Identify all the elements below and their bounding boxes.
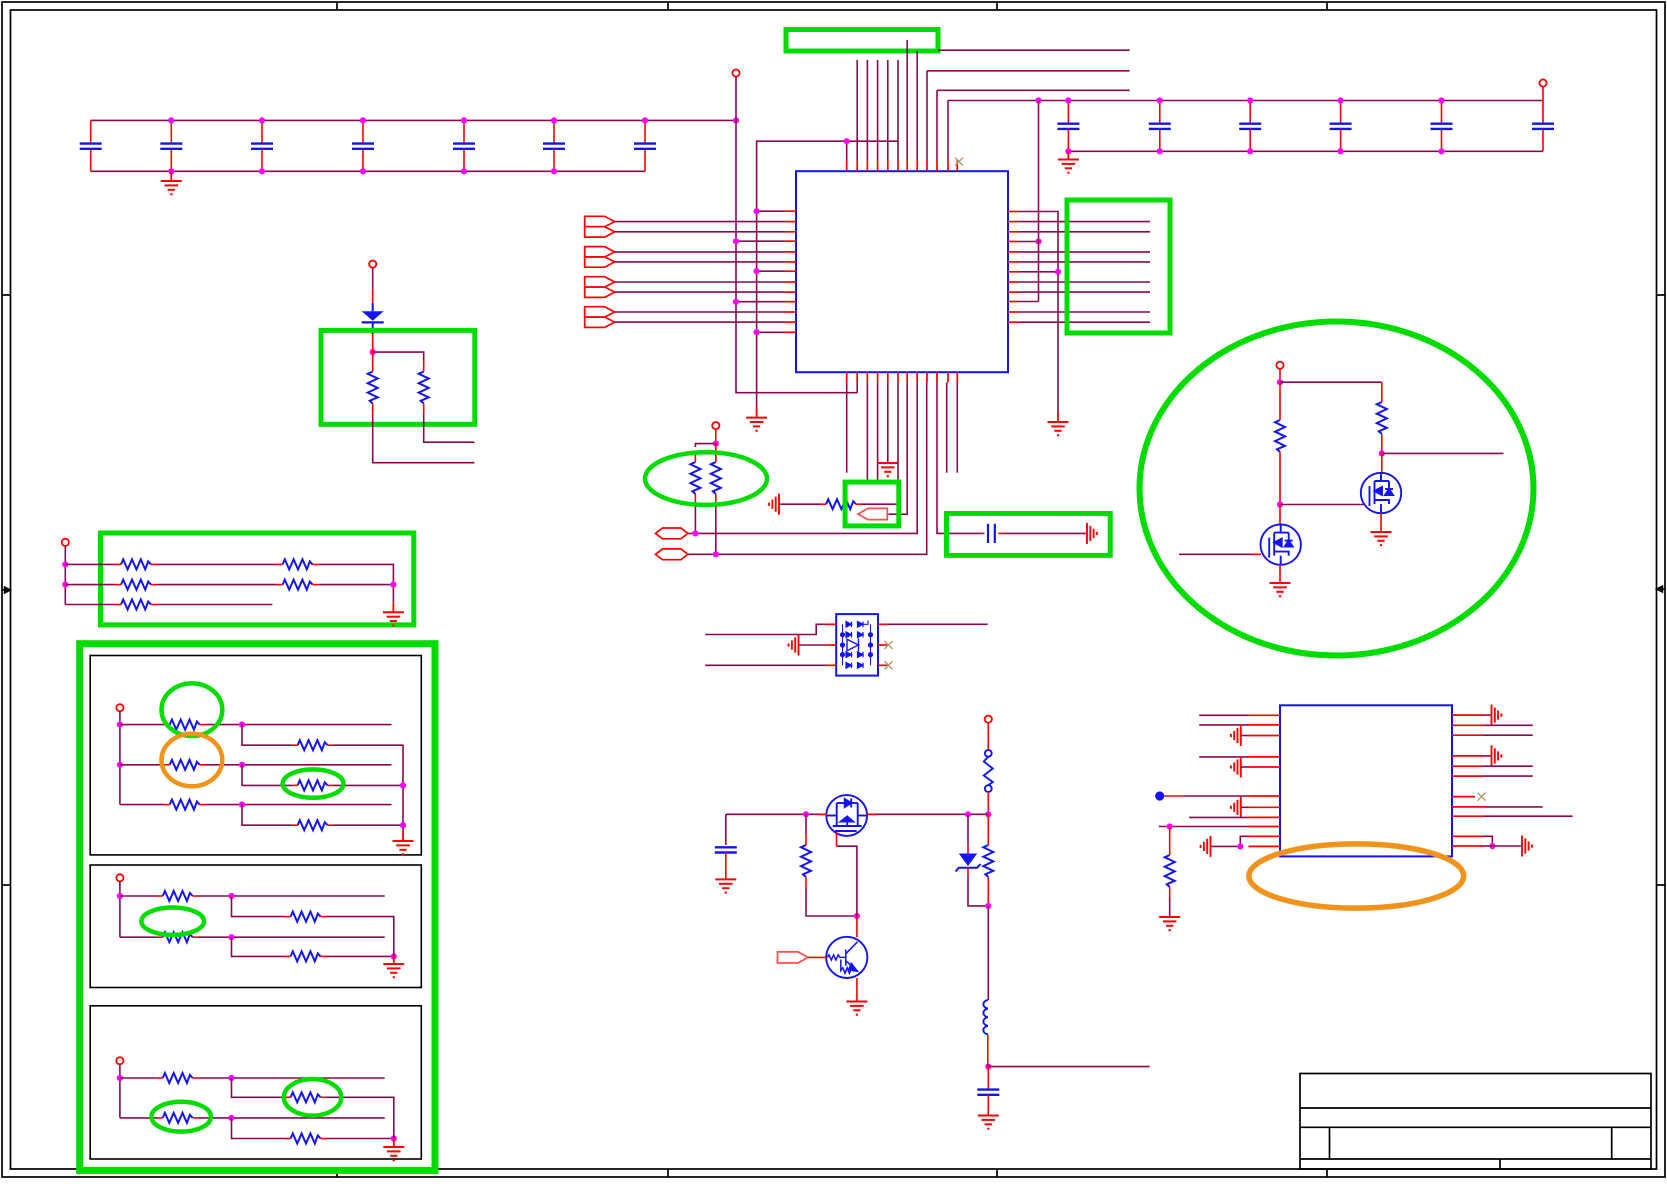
pin [1008,281,1019,283]
junction [985,811,991,817]
junction [1338,148,1344,154]
wire [946,383,948,473]
wire [1019,241,1039,243]
junction [168,117,174,123]
pin [1008,311,1019,313]
junction [400,782,406,788]
wire [1019,221,1150,223]
wire [1484,845,1493,847]
wire [242,805,292,826]
capacitor C9 [1149,101,1171,152]
resistor R5 [1275,420,1285,452]
wire [333,824,403,826]
junction [168,168,174,174]
ground [746,418,767,431]
wire [967,814,969,846]
pin [956,160,958,171]
wire [988,1064,1150,1067]
ground [383,964,404,977]
wire [119,711,121,804]
wire [1019,212,1058,413]
capacitor C15 [715,814,737,879]
ground [1371,532,1392,545]
resistor R2 [419,372,429,404]
wire [1484,734,1533,736]
wire [1038,101,1040,302]
wire [372,348,374,362]
pin [1452,724,1484,726]
pin [866,160,868,171]
resistor R10A [121,559,151,569]
wire [1067,151,1069,159]
pin [785,331,796,333]
resistor R11B [283,580,313,590]
capacitor C4 [352,120,374,171]
resistor RA1 [170,720,200,730]
highlight ellipse RA4 [283,769,344,797]
wire VDD feed [736,77,857,393]
junction [370,349,376,355]
pin [1249,816,1281,818]
wire [198,1117,384,1119]
wire [393,956,395,964]
wire [1211,836,1249,846]
frame tick bottom [336,1169,338,1177]
resistor R9 [1165,855,1175,887]
wire [205,764,391,766]
wire [1380,513,1382,532]
wire gate Q2 [836,833,838,847]
wire [1019,231,1150,233]
pin [1452,835,1484,837]
wire [757,210,785,212]
ground [161,181,182,194]
wire [1241,806,1249,808]
pin [906,160,908,171]
resistor RA6 [298,820,328,830]
wire [808,956,827,958]
resistor R10B [283,559,313,569]
ground [1048,422,1069,435]
net label 1 [656,528,688,539]
pin [936,160,938,171]
junction [985,903,991,909]
highlight ellipse RA1 [162,683,223,736]
wire [805,814,807,834]
junction [1338,97,1344,103]
frame tick top [667,2,669,10]
wire [1484,806,1543,808]
chassis ground [1231,725,1241,746]
wire [846,383,848,473]
pin [1008,261,1019,263]
ground [978,1116,999,1129]
wire [373,414,475,463]
junction [844,138,850,144]
pin [887,160,889,171]
junction [239,802,245,808]
wire [1189,816,1248,818]
power pin VDD [732,69,739,76]
wire [1279,463,1281,505]
highlight ellipse RA3 orange [162,734,223,787]
junction [360,168,366,174]
wire [927,70,1130,72]
junction [1055,269,1061,275]
capacitor C3 [251,120,273,171]
junction [1247,148,1253,154]
wire [1279,382,1281,409]
wire [157,584,277,586]
wire [615,221,785,223]
wire [1004,532,1087,534]
pin [826,623,836,625]
wire ground rail [91,170,645,172]
pin [866,372,868,382]
wire [968,877,988,906]
wire [120,936,157,938]
junction [1065,97,1071,103]
pin [887,372,889,382]
wire [1019,271,1058,273]
wire [715,505,717,554]
wire [326,917,394,946]
pin [936,372,938,382]
wire [1381,382,1383,391]
wire [1279,369,1281,382]
wire [232,896,286,917]
pin [1249,835,1281,837]
resistor RC4 [291,1134,321,1144]
no-connect [885,661,893,669]
junction [713,551,719,557]
junction [1035,238,1041,244]
junction [117,1075,123,1081]
wire [956,383,958,473]
wire main rail [867,813,989,815]
wire [688,383,927,555]
junction [1379,450,1385,456]
pin [916,160,918,171]
pin [1452,755,1484,757]
junction [1065,148,1071,154]
pin [926,372,928,382]
junction [965,811,971,817]
pin [785,261,796,263]
highlight ellipse RC3 [152,1102,211,1132]
highlight box cap [947,514,1111,556]
pin [785,321,796,323]
resistor RB2 [291,912,321,922]
wire [1019,281,1150,283]
net label 2 [656,549,688,560]
resistor R3 [690,462,700,494]
wire [695,444,715,447]
wire [424,414,475,442]
pin [1452,806,1484,808]
wire [888,623,988,625]
junction [754,208,760,214]
inductor L1 [983,1000,987,1034]
transistor Q3 [1261,524,1301,564]
wire [242,725,292,746]
wire [1199,714,1248,716]
wire [615,231,785,233]
junction [854,913,860,919]
pin [1249,735,1281,737]
wire [1019,261,1150,263]
resistor RA2 [298,740,328,750]
input connector [585,216,615,237]
junction [1035,97,1041,103]
wire [866,60,868,160]
wire [1484,714,1492,716]
chassis ground [1522,836,1532,857]
wire [1169,898,1171,917]
pin [785,251,796,253]
junction [228,1075,234,1081]
input connector [585,307,615,328]
wire [372,334,374,348]
pin [846,160,848,171]
highlight ellipse RC2 [284,1079,341,1116]
resistor R11A [121,580,151,590]
capacitor C11 [1330,101,1352,152]
wire [1019,291,1150,293]
pin [1008,241,1019,243]
pin [846,372,848,382]
pin [1364,503,1366,505]
pin [818,813,827,815]
wire [120,1117,157,1119]
power pin AVDD [1539,79,1546,86]
capacitor C12 [1431,101,1453,152]
pin [1452,734,1484,736]
pin [785,281,796,283]
wire [326,955,394,957]
resistor R4 [711,462,721,494]
pin [826,644,836,646]
wire [856,916,858,937]
pin [916,372,918,382]
wire [120,1077,157,1079]
wire [319,564,394,602]
pin [956,372,958,382]
pin [877,372,879,382]
wire [402,831,404,841]
pin [1008,271,1019,273]
ground [846,1002,867,1015]
wire [119,1064,121,1118]
junction [228,1115,234,1121]
pin [1249,826,1281,828]
resistor RC3 [163,1113,193,1123]
power pin VIN [985,716,992,723]
zener D2 [956,846,981,877]
wire [846,141,848,160]
wire [705,624,826,634]
capacitor C5 [453,120,475,171]
pin [1249,806,1281,808]
wire [937,383,981,534]
pin [1008,301,1019,303]
wire [715,429,717,443]
wire [232,937,286,956]
ground [383,1147,404,1160]
wire [887,60,889,160]
wire [1484,775,1533,777]
chassis ground [769,494,779,515]
frame tick bottom [996,1169,998,1177]
wire [1382,452,1504,454]
chassis ground [1231,797,1241,818]
capacitor C16 [977,1067,999,1116]
ground [1058,160,1079,173]
wire [65,584,115,586]
junction [1167,823,1173,829]
wire [736,240,785,242]
junction [239,762,245,768]
wire [937,89,1130,91]
pin [1452,765,1484,767]
wire [392,602,394,612]
wire [1019,251,1150,253]
junction [692,530,698,536]
junction [239,722,245,728]
ground [715,879,736,892]
pin [1008,291,1019,293]
chassis ground [1492,705,1502,726]
pin [1253,553,1261,555]
wire [393,1128,395,1139]
resistor RC1 [163,1073,193,1083]
probe label [858,508,887,519]
frame center arrow right [1657,586,1666,592]
junction [117,722,123,728]
junction [985,1064,991,1070]
pin [1008,211,1019,213]
junction [1247,97,1253,103]
pin [785,311,796,313]
junction [1438,148,1444,154]
wire [157,604,272,606]
pin [1249,756,1281,758]
frame tick left [2,884,11,886]
wire [373,352,424,362]
wire [1484,765,1533,767]
wire [333,784,403,786]
wire [1381,445,1383,453]
power pin RN1 [62,539,69,546]
junction [754,268,760,274]
wire [1280,504,1365,506]
wire [120,764,164,766]
no-connect [955,158,963,166]
pin [785,291,796,293]
ground [393,841,414,854]
chassis ground [789,635,799,656]
wire [615,281,785,283]
wire [1241,766,1249,768]
capacitor C1 [80,120,102,171]
power pin VBAT [369,261,376,268]
wire [887,383,889,464]
pin [878,644,888,646]
title block [1300,1074,1651,1170]
wire [736,301,785,303]
wire [877,60,879,160]
pin [1008,221,1019,223]
junction [62,561,68,567]
wire [205,724,391,726]
frame tick top [336,2,338,10]
ic U2 [1280,705,1452,856]
wire [756,408,758,418]
wire [987,888,989,906]
capacitor C13 [1532,101,1554,152]
wire [1484,755,1492,757]
pin [785,221,796,223]
pin [1249,714,1281,716]
capacitor C6 [543,120,565,171]
wire [615,311,785,313]
highlight ellipse U2 [1249,844,1464,908]
wire [1484,836,1493,846]
pin [1008,231,1019,233]
chassis ground [1492,745,1502,766]
transistor Q1 [826,937,867,978]
highlight box net [786,30,938,52]
junction [461,117,467,123]
junction [803,811,809,817]
junction [1157,148,1163,154]
wire [694,505,696,533]
wire [987,792,989,814]
box RN-C [90,1006,421,1159]
highlight box resistor networks [80,644,435,1171]
capacitor C8 [1057,101,1079,152]
capacitor C7 [634,120,656,171]
node marker [1155,791,1164,800]
pin [785,210,796,212]
pin [897,160,899,171]
resistor R12 [826,499,856,509]
junction [1438,97,1444,103]
pin [878,664,888,666]
wire [926,71,928,160]
ground [383,612,404,625]
wire [866,383,868,482]
ground [1270,583,1291,596]
wire [372,268,374,289]
wire [64,546,66,605]
wire [1179,553,1253,555]
pin [1452,775,1484,777]
junction [1277,379,1283,385]
junction [551,117,557,123]
resistor RB1 [163,891,193,901]
transistor Q4 [1361,473,1401,513]
resistor RA3 [170,760,200,770]
wire VDD rail [91,119,736,121]
junction [1489,843,1495,849]
highlight box probe [845,482,899,526]
chassis ground [1201,836,1211,857]
wire [987,1034,989,1064]
frame tick top [1326,2,1328,10]
pin [1249,845,1281,847]
pin [1452,796,1475,798]
